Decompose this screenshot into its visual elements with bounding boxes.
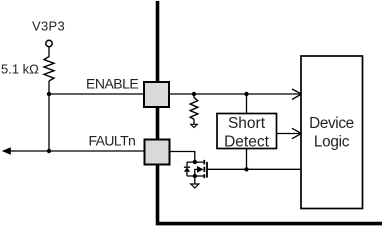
ground arrow (pull-down, open triangle)	[191, 124, 198, 127]
wire: ENABLE horizontal to pad	[49, 93, 146, 95]
signal arrowhead ENABLE into Device Logic (open)	[292, 89, 302, 100]
transistor Q1: body arrow (pointing right into channel)	[195, 169, 197, 176]
wire: gate net to Device Logic	[208, 168, 301, 170]
svg-text:5.1 kΩ: 5.1 kΩ	[1, 61, 39, 76]
node: junction ENABLE/Short Detect	[244, 92, 248, 96]
svg-text:Logic: Logic	[314, 133, 350, 150]
svg-text:Device: Device	[309, 115, 354, 132]
wire: FAULTn pad to transistor drain	[170, 152, 195, 163]
wire: pull-down resistor bottom lead	[193, 119, 195, 124]
wire: ENABLE pad to Device Logic	[169, 93, 301, 95]
ground (open arrow below transistor)	[191, 184, 199, 188]
svg-text:Detect: Detect	[224, 133, 269, 150]
resistor R2 internal pull-down	[190, 98, 198, 120]
node: transistor drain junction	[193, 160, 197, 164]
wire: V3P3 terminal to resistor	[48, 47, 50, 57]
node: junction FAULTn/pull-up	[47, 149, 51, 153]
signal arrowhead Short Detect into Device Logic (open)	[292, 128, 302, 138]
node: junction gate net / Short Detect	[244, 167, 248, 171]
svg-text:V3P3: V3P3	[32, 19, 65, 34]
resistor R1 5.1 kOhm pull-up	[44, 57, 54, 82]
body diode D1: triangle (anode, pointing up)	[184, 167, 190, 171]
wire: resistor to FAULTn line (vertical)	[48, 81, 50, 151]
node: transistor source junction	[193, 174, 197, 178]
transistor Q1 open-drain FAULT NMOS: top (drain) bar	[187, 161, 204, 163]
wire: FAULTn horizontal	[8, 150, 146, 152]
node: junction ENABLE/pull-down resistor	[192, 92, 196, 96]
transistor Q1: gate bar	[206, 162, 208, 178]
transistor Q1: bottom (source) bar	[187, 175, 204, 177]
off-page arrow FAULTn (filled, pointing left)	[2, 147, 11, 155]
pin pad ENABLE	[144, 82, 169, 107]
pin pad FAULTn	[145, 140, 170, 165]
body diode D1: cathode lead	[186, 162, 188, 167]
chip boundary (device outline, thick)	[158, 1, 382, 224]
body diode D1: cathode bar	[184, 166, 190, 168]
svg-text:FAULTn: FAULTn	[89, 132, 136, 148]
wire: pull-down resistor top lead	[193, 94, 195, 98]
block: Device Logic	[301, 56, 363, 209]
wire: source to ground	[194, 176, 196, 184]
wire: Short Detect to Device Logic	[277, 133, 301, 135]
svg-text:Short: Short	[228, 115, 266, 132]
body diode D1: anode lead	[186, 172, 188, 176]
transistor Q1: channel segments	[203, 160, 205, 165]
node: junction ENABLE/pull-up	[47, 92, 51, 96]
block: Short Detect	[217, 114, 277, 149]
svg-text:ENABLE: ENABLE	[86, 75, 138, 91]
power terminal V3P3 (circle)	[46, 40, 52, 46]
wire: Short Detect bottom to gate net	[246, 149, 248, 170]
wire: Short Detect top connection	[246, 94, 248, 114]
wire: gate lead	[207, 168, 208, 170]
